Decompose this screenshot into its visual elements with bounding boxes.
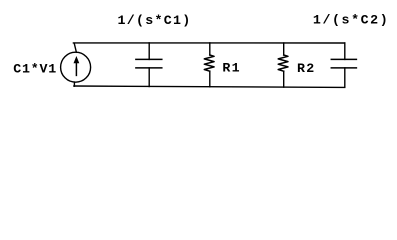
svg-text:1/(s*C2): 1/(s*C2) (313, 13, 389, 28)
svg-text:C1*V1: C1*V1 (13, 61, 57, 76)
svg-text:1/(s*C1): 1/(s*C1) (118, 13, 192, 28)
svg-text:R1: R1 (222, 61, 241, 76)
svg-text:R2: R2 (297, 61, 316, 76)
